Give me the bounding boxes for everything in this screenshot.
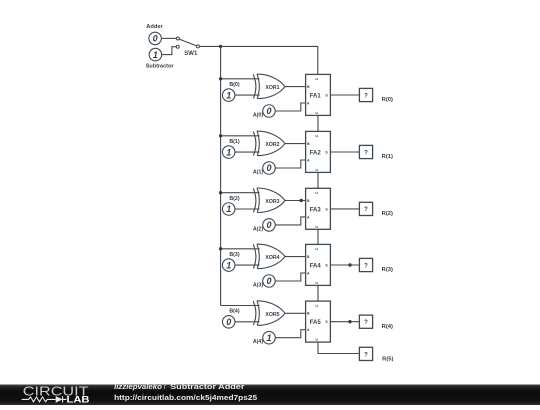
probe box R(4): [359, 315, 372, 328]
switch SW1: [176, 37, 199, 48]
wire FA5 sum output to probe: [330, 321, 359, 323]
wire A(3) source to FA4 pin A: [275, 273, 305, 281]
svg-text:1: 1: [226, 260, 231, 270]
junction bus tap row 1: [219, 77, 222, 80]
svg-text:A(2): A(2): [253, 226, 264, 232]
wire A(1) source to FA2 pin A: [275, 160, 305, 168]
full adder FA4: [306, 244, 331, 285]
full adder FA5: [306, 301, 331, 342]
wire XOR3 output to FA3 pin B: [285, 200, 306, 202]
svg-text:1: 1: [153, 50, 158, 60]
svg-text:SW1: SW1: [184, 51, 198, 57]
probe box R(3): [359, 258, 372, 271]
svg-text:http://circuitlab.com/ck5j4med: http://circuitlab.com/ck5j4med7ps25: [114, 393, 257, 402]
wire A(2) source to FA3 pin A: [275, 217, 305, 225]
wire XOR5 output to FA5 pin B: [285, 312, 306, 314]
wire FA3 carry-out to next stage: [317, 229, 319, 244]
wire FA2 carry-out to next stage: [317, 172, 319, 188]
svg-text:A(4): A(4): [253, 339, 264, 345]
svg-text:?: ?: [364, 207, 368, 213]
source V2 value 1 (Subtractor): [149, 48, 162, 61]
svg-text:?: ?: [364, 352, 368, 358]
svg-text:Adder: Adder: [146, 24, 163, 30]
xor gate XOR5: [253, 301, 285, 326]
svg-text:A(3): A(3): [253, 282, 264, 288]
svg-text:FA4: FA4: [310, 263, 322, 269]
wire bus tap to XOR5 top input: [221, 305, 260, 307]
svg-text:0: 0: [153, 34, 158, 44]
svg-text:R(0): R(0): [382, 97, 393, 103]
svg-text:B(4): B(4): [229, 309, 240, 315]
wire B(2) source to XOR3 bottom input: [235, 208, 260, 210]
svg-text:FA5: FA5: [310, 320, 322, 326]
junction bus tap row 2: [219, 134, 222, 137]
source B(4) value 0: [222, 316, 235, 329]
xor gate XOR3: [253, 188, 285, 213]
full adder FA2: [306, 131, 331, 172]
wire XOR1 output to FA1 pin B: [285, 86, 306, 88]
svg-text:1: 1: [226, 90, 231, 100]
svg-text:A(1): A(1): [253, 169, 264, 175]
svg-text:0: 0: [266, 220, 271, 230]
wire V1 to SW1 top throw: [161, 37, 176, 39]
probe box R(0): [359, 88, 372, 101]
svg-text:0: 0: [266, 106, 271, 116]
wire XOR4 output to FA4 pin B: [285, 256, 306, 258]
svg-text:?: ?: [364, 320, 368, 326]
svg-text:LAB: LAB: [67, 394, 91, 404]
source B(1) value 1: [222, 146, 235, 159]
wire A(4) source to FA5 pin A: [275, 330, 305, 338]
full adder FA1: [306, 74, 331, 115]
wire B(0) source to XOR1 bottom input: [235, 94, 260, 96]
svg-text:?: ?: [364, 93, 368, 99]
svg-text:?: ?: [364, 150, 368, 156]
source A(0) value 0: [263, 105, 276, 118]
junction on XOR3 output wire: [300, 199, 303, 202]
svg-text:1: 1: [226, 204, 231, 214]
svg-text:FA3: FA3: [310, 207, 322, 213]
wire V2 to SW1 bottom throw: [162, 47, 177, 55]
svg-text:A(0): A(0): [253, 112, 264, 118]
wire FA1 carry-out to next stage: [317, 115, 319, 131]
wire FA4 carry-out to next stage: [317, 285, 319, 301]
svg-text:Subtractor: Subtractor: [146, 64, 175, 70]
svg-text:FA1: FA1: [310, 93, 322, 99]
wire FA1 sum output to probe: [330, 94, 359, 96]
svg-text:R(1): R(1): [382, 154, 393, 160]
svg-text:XOR4: XOR4: [265, 255, 279, 261]
source B(0) value 1: [222, 89, 235, 102]
svg-text:0: 0: [266, 163, 271, 173]
svg-text:R(4): R(4): [382, 324, 393, 330]
wire FA4 sum output to probe: [330, 264, 359, 266]
source A(3) value 0: [263, 275, 276, 288]
svg-text:R(5): R(5): [382, 356, 393, 362]
wire B(4) source to XOR5 bottom input: [235, 321, 260, 323]
source V1 value 0 (Adder): [149, 32, 162, 45]
svg-text:XOR1: XOR1: [265, 85, 279, 91]
source A(1) value 0: [263, 162, 276, 175]
source A(4) value 1: [263, 331, 276, 344]
full adder FA3: [306, 188, 331, 229]
junction at bus top: [219, 45, 222, 48]
wire bus tap to XOR1 top input: [221, 78, 260, 80]
junction on FA5 sum wire: [348, 320, 351, 323]
svg-text:XOR5: XOR5: [265, 312, 279, 318]
junction bus tap row 3: [219, 191, 222, 194]
svg-text:1: 1: [226, 147, 231, 157]
source B(2) value 1: [222, 203, 235, 216]
junction on FA4 sum wire: [348, 263, 351, 266]
source B(3) value 1: [222, 259, 235, 272]
svg-text:lizziepvaleko/Subtractor Adder: lizziepvaleko/Subtractor Adder: [114, 382, 245, 391]
svg-text:?: ?: [364, 263, 368, 269]
wire A(0) source to FA1 pin A: [275, 103, 305, 111]
svg-text:B(0): B(0): [229, 82, 240, 88]
wire B(1) source to XOR2 bottom input: [235, 151, 260, 153]
xor gate XOR1: [253, 74, 285, 99]
wire bus tap to XOR4 top input: [221, 248, 260, 250]
xor gate XOR4: [253, 244, 285, 269]
junction bus tap row 4: [219, 247, 222, 250]
wire bus tap to XOR2 top input: [221, 135, 260, 137]
footer bar: [0, 384, 540, 405]
svg-text:1: 1: [266, 333, 271, 343]
wire FA2 sum output to probe: [330, 151, 359, 153]
svg-text:XOR3: XOR3: [265, 199, 279, 205]
svg-text:R(2): R(2): [382, 211, 393, 217]
probe box R(1): [359, 145, 372, 158]
wire FA3 sum output to probe: [330, 208, 359, 210]
wire FA5 carry-out to probe R(5): [318, 342, 359, 353]
wire select bus vertical: [220, 46, 222, 305]
probe box R(2): [359, 202, 372, 215]
xor gate XOR2: [253, 131, 285, 156]
wire XOR2 output to FA2 pin B: [285, 143, 306, 145]
CircuitLab logo: [22, 384, 91, 405]
svg-text:XOR2: XOR2: [265, 142, 279, 148]
wire SW1 pole to FA1 carry-in: [200, 46, 318, 74]
svg-text:0: 0: [266, 276, 271, 286]
svg-text:FA2: FA2: [310, 150, 322, 156]
wire bus tap to XOR3 top input: [221, 192, 260, 194]
source A(2) value 0: [263, 219, 276, 232]
svg-text:0: 0: [226, 317, 231, 327]
svg-text:B(2): B(2): [229, 196, 240, 202]
svg-text:B(3): B(3): [229, 252, 240, 258]
svg-text:R(3): R(3): [382, 267, 393, 273]
svg-text:B(1): B(1): [229, 139, 240, 145]
probe box R(5): [359, 347, 372, 360]
wire B(3) source to XOR4 bottom input: [235, 264, 260, 266]
